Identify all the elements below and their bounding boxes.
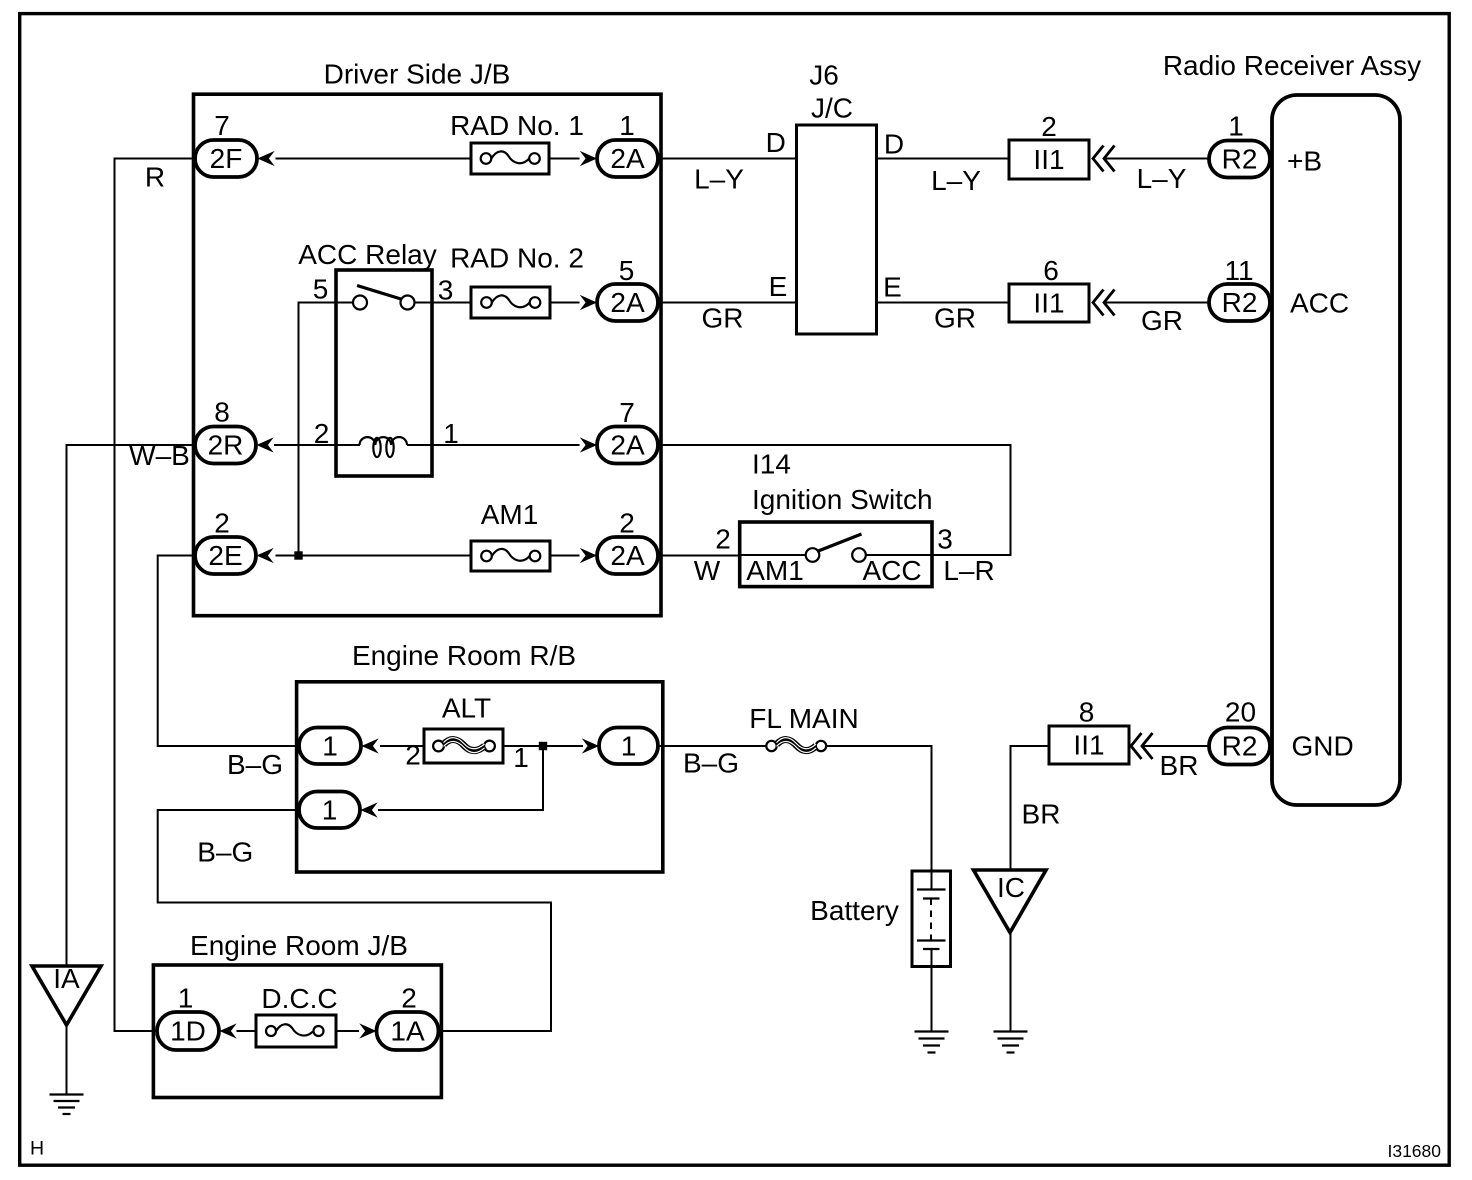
wire row2: fuse to 2A arrow: [550, 302, 580, 304]
fuse RAD No.1: [471, 143, 549, 174]
svg-text:2: 2: [715, 524, 731, 555]
arrow into 2A: [580, 151, 597, 166]
Ignition Switch box I14: [740, 522, 932, 587]
arrow into 1A: [359, 1023, 376, 1038]
svg-text:11: 11: [1224, 255, 1253, 286]
svg-text:AM1: AM1: [746, 555, 804, 586]
svg-text:R: R: [145, 162, 165, 193]
svg-text:E: E: [769, 271, 788, 302]
svg-text:I14: I14: [752, 449, 791, 480]
svg-text:B–G: B–G: [683, 748, 739, 779]
svg-text:ACC Relay: ACC Relay: [298, 239, 436, 270]
svg-text:IC: IC: [997, 872, 1025, 903]
connector 2A pin2: [597, 537, 658, 574]
arrow into 2A: [580, 295, 597, 310]
chevron GND: [1131, 733, 1142, 759]
svg-text:ACC: ACC: [1290, 288, 1349, 319]
relay switch contacts: [353, 296, 367, 310]
svg-text:W–B: W–B: [129, 440, 190, 471]
svg-text:D.C.C: D.C.C: [261, 983, 337, 1014]
svg-text:ACC: ACC: [862, 555, 921, 586]
relay coil: [360, 437, 408, 445]
svg-text:2F: 2F: [210, 143, 243, 174]
switch contact AM1: [806, 548, 820, 562]
wire IA to ground: [66, 1025, 68, 1094]
svg-text:1D: 1D: [170, 1016, 206, 1047]
svg-text:7: 7: [214, 110, 230, 141]
wire row4: fuse to 2A arrow: [550, 555, 580, 557]
svg-text:R2: R2: [1222, 731, 1258, 762]
svg-text:Driver Side J/B: Driver Side J/B: [324, 59, 511, 90]
connector 2R: [195, 427, 256, 464]
ground symbol IA: [50, 1095, 84, 1115]
wire row5: FL MAIN to battery: [827, 746, 932, 871]
connector 2A pin1: [597, 140, 658, 177]
svg-text:AM1: AM1: [481, 499, 539, 530]
wire row3: 2R arrow to relay coil: [274, 444, 360, 446]
svg-text:R2: R2: [1222, 144, 1258, 175]
relay switch blade: [357, 286, 401, 300]
connector R2 pin11: [1209, 284, 1270, 321]
fusible link FL MAIN: [766, 738, 826, 753]
svg-text:3: 3: [937, 524, 953, 555]
connector 1D: [157, 1012, 219, 1050]
svg-text:1: 1: [1228, 111, 1244, 142]
arrow into 2A: [580, 548, 597, 563]
svg-text:5: 5: [313, 274, 329, 305]
svg-text:RAD No. 1: RAD No. 1: [450, 110, 584, 141]
ground symbol battery: [915, 1032, 949, 1053]
wire inside switch: [740, 554, 806, 556]
svg-text:2R: 2R: [208, 430, 244, 461]
wire battery to ground: [931, 967, 933, 1032]
wire row2: J/C to II1, GR: [877, 302, 1010, 304]
svg-text:Engine Room R/B: Engine Room R/B: [352, 640, 576, 671]
connector R2 pin20: [1209, 728, 1270, 765]
junction dot: [539, 742, 547, 750]
wire row2: relay pin3 to RAD No.2 fuse: [415, 302, 472, 304]
svg-text:2: 2: [314, 418, 330, 449]
wire row3: 2A pin7 to ignition switch pin3: [658, 445, 1011, 555]
connector ERB 1 lower: [299, 792, 360, 829]
wire row1: fuse to 2A arrow: [549, 158, 580, 160]
svg-text:II1: II1: [1033, 144, 1064, 175]
connector R2 pin1: [1209, 141, 1270, 178]
svg-text:J/C: J/C: [811, 93, 853, 124]
svg-text:R2: R2: [1222, 287, 1258, 318]
wire row1: J/C to II1, L-Y: [877, 158, 1010, 160]
svg-text:Ignition Switch: Ignition Switch: [752, 484, 933, 515]
wire D.C.C fuse to 1A arrow: [336, 1030, 359, 1032]
svg-text:FL MAIN: FL MAIN: [749, 703, 858, 734]
svg-text:2E: 2E: [208, 540, 242, 571]
chevron row2: [1093, 290, 1104, 316]
Engine Room R/B box: [297, 682, 663, 872]
fuse RAD No.2: [471, 287, 550, 318]
switch blade: [817, 534, 862, 552]
svg-text:GR: GR: [934, 303, 976, 334]
svg-text:2: 2: [1041, 111, 1057, 142]
svg-text:6: 6: [1043, 255, 1059, 286]
arrow into ERB 1 upper: [362, 738, 379, 753]
svg-text:1: 1: [322, 795, 338, 826]
svg-text:1A: 1A: [390, 1016, 425, 1047]
svg-text:+B: +B: [1287, 146, 1322, 177]
svg-text:20: 20: [1225, 697, 1256, 728]
svg-text:1: 1: [322, 731, 338, 762]
wire row5: ERB oval3 to FL MAIN, B-G: [658, 745, 767, 747]
svg-text:1: 1: [621, 731, 637, 762]
wire II1 GND to IC triangle: [1011, 746, 1050, 870]
Driver Side J/B box: [194, 94, 662, 616]
wire R: 2F to vertical down to 1D: [115, 159, 196, 1032]
arrow into ERB 1 right: [582, 738, 599, 753]
J/C box J6: [797, 125, 877, 334]
svg-text:2A: 2A: [610, 430, 645, 461]
fuse D.C.C: [256, 1015, 336, 1047]
svg-text:W: W: [694, 555, 721, 586]
ACC Relay box: [336, 270, 432, 476]
svg-text:D: D: [884, 129, 904, 160]
junction dot: [294, 551, 302, 559]
wire row2: 2A to J/C, GR: [658, 302, 797, 304]
wire row4: 2A to ignition switch, W: [658, 555, 740, 557]
svg-text:L–Y: L–Y: [1137, 163, 1187, 194]
svg-text:GR: GR: [702, 303, 744, 334]
svg-text:GND: GND: [1292, 731, 1354, 762]
wire W-B: 2R left to IA triangle: [67, 445, 196, 966]
svg-text:GR: GR: [1141, 305, 1183, 336]
svg-text:ALT: ALT: [442, 693, 491, 724]
wire junction down to ERB oval2: [378, 746, 543, 810]
arrow into ERB 1 lower: [361, 802, 378, 817]
wire chevron to R2 GND, BR: [1144, 745, 1209, 747]
svg-text:1: 1: [513, 742, 529, 773]
wire row2: relay pin5 to junction at 2E wire: [299, 303, 354, 556]
arrow into 2E: [257, 548, 274, 563]
wire row1: 2F arrow to RAD No.1 fuse: [276, 158, 472, 160]
arrow into 2A: [580, 437, 597, 452]
Radio Receiver Assy box: [1272, 95, 1400, 805]
svg-text:BR: BR: [1022, 799, 1061, 830]
svg-text:L–R: L–R: [943, 555, 994, 586]
svg-text:2A: 2A: [610, 287, 645, 318]
svg-text:Radio Receiver Assy: Radio Receiver Assy: [1163, 50, 1421, 81]
junction connector II1 row1: [1009, 140, 1089, 179]
svg-text:II1: II1: [1033, 288, 1064, 319]
arrow into 1D: [220, 1023, 237, 1038]
connector 1A: [377, 1012, 439, 1050]
svg-text:B–G: B–G: [197, 837, 253, 868]
svg-text:2: 2: [401, 983, 417, 1014]
svg-text:I31680: I31680: [1387, 1141, 1441, 1161]
svg-text:2: 2: [214, 508, 230, 539]
connector 2F: [195, 140, 257, 177]
svg-text:H: H: [30, 1138, 44, 1160]
svg-text:1: 1: [178, 983, 194, 1014]
svg-text:3: 3: [438, 275, 454, 306]
svg-text:2A: 2A: [610, 143, 645, 174]
wire row2: II1 to R2, GR: [1105, 302, 1210, 304]
svg-text:E: E: [883, 272, 902, 303]
svg-text:IA: IA: [53, 963, 80, 994]
ground symbol IC: [994, 1032, 1028, 1053]
wire row3: coil to 2A arrow: [407, 444, 580, 446]
svg-text:2A: 2A: [610, 540, 645, 571]
svg-text:5: 5: [619, 255, 635, 286]
Engine Room J/B box: [153, 965, 441, 1098]
wire ERB second connector to 1A: [158, 810, 551, 1031]
svg-text:J6: J6: [809, 60, 839, 91]
svg-text:II1: II1: [1073, 730, 1104, 761]
wire row1: II1 to R2, L-Y: [1105, 158, 1210, 160]
wire row5: ALT fuse to arrow with junction: [503, 745, 583, 747]
wire 2E left down to Engine Room R/B: [158, 556, 299, 747]
connector ERB 1 upper: [299, 728, 361, 765]
battery: [912, 871, 951, 967]
svg-text:8: 8: [214, 397, 230, 428]
svg-text:8: 8: [1079, 697, 1095, 728]
switch contact ACC: [852, 548, 866, 562]
connector 2A pin7: [597, 427, 658, 464]
arrow into 2R: [257, 437, 274, 452]
svg-text:1: 1: [443, 418, 459, 449]
wire row5: ERB oval1 arrow to ALT fuse: [380, 745, 424, 747]
svg-text:1: 1: [619, 110, 635, 141]
svg-text:BR: BR: [1160, 750, 1199, 781]
connector ERB 1 right: [599, 728, 658, 765]
svg-text:B–G: B–G: [227, 749, 283, 780]
svg-text:D: D: [766, 127, 786, 158]
fuse AM1: [471, 541, 550, 571]
svg-text:Battery: Battery: [810, 895, 899, 926]
connector 2A pin5: [597, 284, 658, 321]
connector 2E: [195, 537, 256, 574]
svg-text:7: 7: [619, 397, 635, 428]
wire row1: 2A to J/C, L-Y: [658, 158, 797, 160]
IA ground triangle: [32, 966, 101, 1025]
svg-text:RAD No. 2: RAD No. 2: [450, 243, 584, 274]
IC ground triangle: [974, 870, 1047, 933]
svg-text:L–Y: L–Y: [931, 165, 981, 196]
svg-text:2: 2: [405, 740, 421, 771]
wire row4: 2E arrow to AM1 fuse: [276, 555, 472, 557]
wire IC apex to ground: [1010, 933, 1012, 1032]
junction connector II1 row2: [1009, 284, 1089, 322]
junction connector II1 GND: [1049, 726, 1129, 764]
svg-text:2: 2: [619, 508, 635, 539]
chevron row1: [1093, 146, 1104, 172]
svg-text:Engine Room J/B: Engine Room J/B: [190, 930, 408, 961]
wire 1D fuse row: [237, 1030, 257, 1032]
svg-text:L–Y: L–Y: [694, 164, 744, 195]
fusible link ALT: [424, 729, 503, 763]
arrow into 2F: [258, 151, 275, 166]
